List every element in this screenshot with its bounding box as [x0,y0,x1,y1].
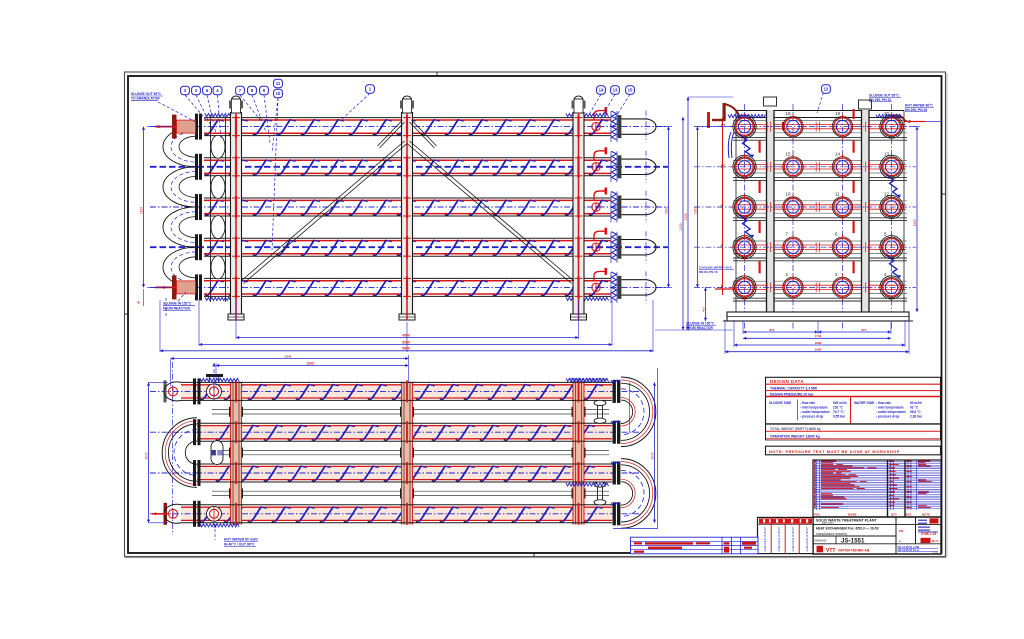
tube row 1 right flange [611,111,621,142]
plan left flanges all rows [193,378,201,526]
plan tube row 4 [150,505,640,523]
svg-text:PN: PN [899,529,903,533]
svg-text:1632: 1632 [140,207,144,214]
tube row 2 left flange [195,154,202,180]
elevation bottom dimension lines [160,300,653,352]
svg-text:NOTE: NOTE [922,512,930,516]
svg-text:HEAT EXCHANGER Pos. 6/50.3 — J: HEAT EXCHANGER Pos. 6/50.3 — JS-53 [816,527,879,531]
tube row 1 left flange [195,114,202,140]
svg-text:HOT WATER 60 m3/h: HOT WATER 60 m3/h [224,538,258,542]
svg-text:- inlet temperature: - inlet temperature [800,405,828,409]
tube end circle 2 [780,272,806,301]
svg-text:91 °C: 91 °C [910,405,919,409]
plan row1 left end cap and nozzle [164,363,224,402]
plan intermediate pipes [212,407,609,499]
support post S2 [399,96,415,320]
svg-text:DESIGN DATA: DESIGN DATA [770,379,804,384]
svg-text:JS-1551: JS-1551 [841,538,865,545]
support post S1 [228,96,244,320]
svg-text:1333: 1333 [306,361,314,365]
tube row 3 right flange [611,192,621,223]
svg-text:0,55 bar: 0,55 bar [833,414,846,418]
plan note hot water [213,524,258,546]
svg-text:1880: 1880 [815,341,822,345]
svg-text:manufacture drawing: manufacture drawing [816,532,847,536]
plan projection line [172,362,174,535]
svg-text:12: 12 [884,192,889,197]
tube row 5 vent pipe [592,268,607,292]
tube end circle 16 [721,154,758,180]
svg-text:SLUDGE SIDE: SLUDGE SIDE [769,401,792,405]
tube end circle 13 [879,151,905,180]
approval signature table [758,517,814,553]
svg-text:- flow rate: - flow rate [800,401,815,405]
tube row 1 vent pipe [592,107,607,131]
svg-text:60 m3/h: 60 m3/h [910,401,922,405]
svg-text:11: 11 [835,192,840,197]
end view outlet piping top right [876,114,906,122]
plan note insulation [570,378,606,382]
svg-text:152 °C: 152 °C [833,405,843,409]
tube row 5 right flange [611,272,621,303]
plan row4 left end cap and nozzle [152,503,222,525]
svg-text:18: 18 [786,111,791,116]
svg-text:DN 80, PN 16: DN 80, PN 16 [699,270,718,274]
elevation left U-bend return bends [163,127,196,288]
svg-text:DRAWING: DRAWING [815,539,827,542]
tube row 4 vent pipe [592,228,607,252]
svg-text:13: 13 [613,88,618,93]
svg-text:- pressure drop: - pressure drop [800,414,823,418]
svg-text:1960: 1960 [815,348,822,352]
tube end circle 3 [830,272,856,301]
plan top dimension lines [171,354,409,386]
svg-text:11: 11 [276,81,281,86]
tube end circle 1 [721,274,758,300]
svg-text:1632: 1632 [913,219,917,226]
svg-text:545 m3/h: 545 m3/h [833,401,847,405]
tube end circle 18 [780,111,806,140]
tube end circle 11 [830,192,856,221]
svg-text:IN 40°C / OUT 96°C: IN 40°C / OUT 96°C [224,542,255,546]
support post S3 [571,96,587,320]
tube end circle 20 [879,111,905,140]
bill of materials table [813,460,941,517]
svg-text:13: 13 [884,151,889,156]
svg-text:10: 10 [786,192,791,197]
end view flange ticks between circles [767,122,868,293]
svg-text:BL-P: BL-P [932,539,939,543]
plan right U-bends [621,377,656,528]
tube end circle 6 [830,232,856,261]
tube end circle 7 [780,232,806,261]
truss diagonal brace left [241,141,407,284]
plan tube row 3 [150,464,640,482]
svg-text:CHECKED 12.05.97: CHECKED 12.05.97 [777,527,781,552]
plan view supports [229,380,586,524]
svg-text:2342: 2342 [285,354,292,358]
end view note sludge out [869,94,901,102]
plan tube row 2 [150,423,640,441]
tube row 3 elevation body [150,191,668,223]
svg-text:SLUDGE IN 152°C: SLUDGE IN 152°C [163,302,192,306]
svg-text:NOTE: PRESSURE TEST MUST B: NOTE: PRESSURE TEST MUST BE DONE AT WORK… [769,449,900,454]
end view base plate [723,312,913,321]
svg-text:POS: POS [814,512,820,516]
svg-text:SLUDGE OUT 95°C: SLUDGE OUT 95°C [131,92,162,96]
svg-text:TO GRANULATOR: TO GRANULATOR [131,97,160,101]
tube row 3 left flange [195,194,202,220]
revision history strip [631,537,759,554]
elevation left dimension line [138,127,173,306]
tube end circle 17 [721,114,758,140]
drawing sheet outer border [125,72,948,558]
svg-text:2,38 bar: 2,38 bar [910,414,923,418]
svg-text:- outlet temperature: - outlet temperature [876,410,906,414]
tube end circle 15 [780,151,806,180]
svg-text:15: 15 [786,151,791,156]
svg-text:96,6 °C: 96,6 °C [910,410,921,414]
tube row 1 elevation body [150,111,668,143]
svg-text:16: 16 [721,163,726,168]
end view riser pipes [723,109,855,295]
svg-text:- outlet temperature: - outlet temperature [800,410,830,414]
tube row 2 vent pipe [592,147,607,171]
tube row 5 left flange [195,274,202,300]
end view note hot water [905,104,941,124]
tube end circle 14 [830,151,856,180]
end view posts [764,97,872,312]
plan vertical connector pipes right [594,400,606,505]
drawing sheet inner border [128,76,942,553]
elevation right dimension lines [655,117,690,330]
svg-text:1632: 1632 [694,207,698,214]
svg-text:FROM REACTOR: FROM REACTOR [163,306,190,310]
svg-text:CHECKED 12.05.97: CHECKED 12.05.97 [805,527,809,552]
plan left dimension [145,382,169,522]
pressure test note banner [766,446,941,455]
end view note sludge in [686,322,716,330]
svg-text:14: 14 [599,88,604,93]
svg-text:VAPOR-TEKNIK AB: VAPOR-TEKNIK AB [838,549,870,553]
svg-text:- inlet temperature: - inlet temperature [876,405,904,409]
svg-text:NAME: NAME [848,512,857,516]
svg-text:OPERATION WEIGHT 13600 kg: OPERATION WEIGHT 13600 kg [770,434,820,438]
tube end circle 8 [721,234,758,260]
svg-text:4500: 4500 [402,333,410,337]
svg-text:10: 10 [276,91,281,96]
svg-text:DN 200, PN 16: DN 200, PN 16 [905,108,927,112]
svg-text:408: 408 [702,307,706,312]
truss diagonal brace right [407,141,574,284]
svg-text:© 97: © 97 [933,552,939,555]
insulation hatch bands elevation [205,114,609,301]
svg-text:THERMAL INSULATION: THERMAL INSULATION [570,378,606,382]
tube end circle 12 [879,192,905,221]
balloon callouts elevation [181,79,635,250]
end view inlet piping top left [707,103,765,158]
svg-text:14: 14 [835,151,840,156]
svg-text:QTY: QTY [891,512,897,516]
tube row 4 left flange [195,234,202,260]
svg-text:871: 871 [861,328,866,332]
svg-text:19: 19 [835,111,840,116]
svg-text:CHECKED 12.05.97: CHECKED 12.05.97 [763,527,767,552]
svg-text:12: 12 [824,87,829,92]
svg-text:CHECKED 12.05.97: CHECKED 12.05.97 [791,527,795,552]
tube row 2 right flange [611,151,621,182]
svg-text:5600: 5600 [402,347,410,351]
end view right dimension [909,127,920,312]
svg-text:17: 17 [721,123,726,128]
svg-text:FROM REACTOR: FROM REACTOR [686,326,713,330]
svg-text:MTL: MTL [906,512,912,516]
end view U-bend flow connectors [740,135,902,279]
border centering ticks [125,72,946,557]
svg-text:2130: 2130 [684,213,688,220]
tube end circle 19 [830,111,856,140]
plan right dimension [613,368,658,528]
end view centerline grid [694,104,916,330]
svg-text:- pressure drop: - pressure drop [876,414,899,418]
svg-text:15: 15 [628,88,633,93]
plan insulation hatch bands [200,378,609,527]
tube row 5 elevation body [150,271,668,303]
end view bottom dimensions [725,320,909,354]
svg-text:WATER SIDE: WATER SIDE [854,401,875,405]
elevation left vertical manifold [204,116,232,302]
svg-text:DN 250, PN 10: DN 250, PN 10 [869,98,891,102]
note cooling water elevation [163,292,195,318]
svg-text:1632: 1632 [145,452,149,459]
end view frame rails [733,111,907,313]
truss apex braces [378,120,437,148]
plan right U-bend flanges [611,380,620,525]
tube row 4 right flange [611,232,621,263]
svg-text:871: 871 [769,328,774,332]
svg-text:ANY CITY: ANY CITY [822,521,834,525]
svg-text:5280: 5280 [402,340,410,344]
design data table [766,377,941,440]
note sludge out elevation [131,92,196,122]
svg-text:2130: 2130 [679,223,683,230]
tube row 2 elevation body [150,151,668,183]
end view left dimensions [684,97,733,330]
tube row 4 elevation body [150,231,668,263]
svg-text:1632: 1632 [665,207,669,214]
sludge inlet nozzle row 1 [155,115,196,139]
tube end circle 5 [879,232,905,261]
plan vertical capsule pipe rows 2-3 [211,441,224,465]
tube end circle 10 [780,192,806,221]
tube end circle 4 [879,272,905,301]
end view note cooling water [699,266,737,291]
svg-text:1742: 1742 [815,334,822,338]
svg-text:79,7 °C: 79,7 °C [833,410,844,414]
svg-text:- flow rate: - flow rate [876,401,891,405]
title block [813,517,941,555]
svg-text:VTT: VTT [826,548,835,554]
svg-text:TOTAL WEIGHT (EMPTY) 8665 kg: TOTAL WEIGHT (EMPTY) 8665 kg [770,427,821,431]
plan left U-bend rows 2-3 [162,418,197,488]
svg-text:1632: 1632 [651,452,655,459]
sludge outlet nozzle row 5 [155,275,196,299]
plan tube row 1 [150,382,640,400]
svg-text:THERMAL CAPACITY 3,3 MW: THERMAL CAPACITY 3,3 MW [770,386,818,390]
end view balloon 12 [817,85,830,113]
tube row 3 vent pipe [592,188,607,212]
tube end circle 9 [721,194,758,220]
